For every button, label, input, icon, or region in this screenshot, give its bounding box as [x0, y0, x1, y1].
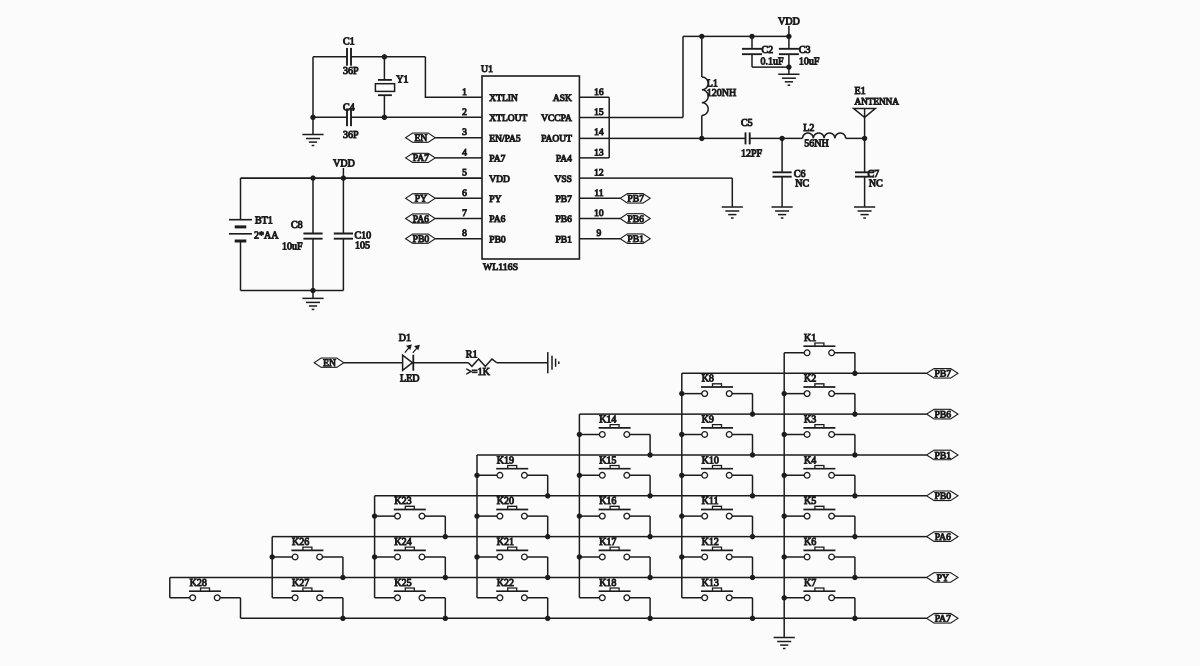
svg-text:R1: R1	[466, 349, 478, 360]
node K14 column junction	[577, 432, 582, 437]
svg-text:PA4: PA4	[556, 155, 572, 165]
wire K19 drop	[547, 475, 549, 496]
switch K11	[682, 496, 753, 519]
svg-text:C4: C4	[343, 102, 355, 113]
switch K21	[477, 537, 548, 560]
wire K11 drop	[752, 516, 754, 537]
power VDD symbol (top)	[778, 16, 800, 36]
node K1 row junction	[852, 371, 857, 376]
node K25 row junction	[443, 616, 448, 621]
svg-text:PAOUT: PAOUT	[541, 134, 572, 144]
ground crystal	[302, 135, 323, 146]
wire K9 drop	[752, 434, 754, 455]
wire K18 drop	[649, 598, 651, 619]
wire K7 drop	[854, 598, 856, 619]
node K5 row junction	[852, 534, 857, 539]
svg-text:15: 15	[594, 108, 604, 118]
wire K25 drop	[444, 598, 446, 619]
switch K3	[784, 414, 855, 437]
wire K17 drop	[649, 557, 651, 578]
wire K21 drop	[547, 557, 549, 578]
power VDD symbol (battery section)	[333, 159, 355, 179]
wire PAOUT pin14	[579, 137, 745, 139]
wire C5 to C6 node	[750, 137, 803, 139]
switch K28	[170, 578, 241, 601]
svg-text:K12: K12	[702, 537, 719, 548]
node crystal-bottom junction	[382, 115, 387, 120]
svg-text:K26: K26	[292, 537, 309, 548]
svg-text:2*AA: 2*AA	[254, 231, 279, 242]
switch K10	[682, 455, 753, 478]
svg-text:K10: K10	[702, 455, 719, 466]
svg-text:E1: E1	[855, 86, 866, 97]
node PB7 flag (IC side)	[620, 194, 650, 205]
svg-text:VCCPA: VCCPA	[541, 114, 572, 124]
svg-text:K4: K4	[804, 455, 816, 466]
node K27 row junction	[340, 616, 345, 621]
svg-text:U1: U1	[481, 64, 493, 75]
svg-text:NC: NC	[795, 178, 809, 189]
switch K17	[579, 537, 650, 560]
node PB0 flag	[406, 234, 436, 245]
svg-text:K3: K3	[804, 414, 816, 425]
node K12 row junction	[750, 575, 755, 580]
svg-text:BT1: BT1	[255, 216, 273, 227]
node PA6 flag (matrix)	[927, 532, 958, 543]
node K23 row junction	[443, 534, 448, 539]
node K6 column junction	[782, 554, 787, 559]
capacitor C7	[855, 138, 883, 207]
svg-text:3: 3	[462, 128, 467, 138]
node K19 column junction	[474, 473, 479, 478]
node antenna junction	[862, 136, 867, 141]
svg-text:K2: K2	[804, 374, 816, 385]
switch K24	[375, 537, 446, 560]
node C2 top junction	[749, 34, 754, 39]
svg-text:36P: 36P	[343, 130, 359, 141]
wire K27 drop	[342, 598, 344, 619]
wire matrix column 3	[578, 414, 580, 598]
node K21 row junction	[545, 575, 550, 580]
switch K19	[477, 455, 548, 478]
svg-text:C5: C5	[741, 118, 753, 129]
node K20 row junction	[545, 534, 550, 539]
wire matrix row PA6	[272, 536, 926, 538]
svg-text:>=1K: >=1K	[466, 367, 490, 378]
node K17 column junction	[577, 554, 582, 559]
crystal Y1	[375, 57, 408, 118]
svg-text:K5: K5	[804, 496, 816, 507]
wire K22 drop	[547, 598, 549, 619]
svg-text:ASK: ASK	[553, 94, 572, 104]
node PB7 flag (matrix)	[927, 369, 958, 380]
svg-text:K19: K19	[497, 455, 514, 466]
wire matrix row PB1	[477, 454, 927, 456]
wire K26 drop	[342, 557, 344, 578]
wire K16 drop	[649, 516, 651, 537]
svg-text:K16: K16	[599, 496, 616, 507]
node PA7 flag (matrix)	[927, 613, 958, 624]
node C4 left junction	[310, 115, 315, 120]
svg-text:PB0: PB0	[489, 235, 506, 245]
node PB6 flag (matrix)	[927, 409, 958, 420]
svg-text:14: 14	[594, 128, 604, 138]
wire pin9 PB1	[579, 238, 620, 240]
wire battery bottom rail	[241, 290, 344, 292]
svg-text:4: 4	[462, 148, 467, 158]
svg-text:VSS: VSS	[554, 175, 571, 185]
svg-text:PB1: PB1	[556, 235, 573, 245]
svg-text:K7: K7	[804, 578, 816, 589]
wire top (C1 net, pin 1 XTLIN)	[313, 56, 425, 58]
svg-text:K9: K9	[702, 414, 714, 425]
ground LED (rotated)	[548, 352, 559, 373]
wire matrix row PY	[170, 576, 927, 578]
node K24 column junction	[372, 554, 377, 559]
svg-text:PA6: PA6	[489, 215, 505, 225]
svg-text:9: 9	[597, 229, 602, 239]
node K16 row junction	[647, 534, 652, 539]
node PY flag (matrix)	[927, 573, 958, 584]
wire matrix row PB7	[682, 372, 927, 374]
wire ASK pin16 to PA4 pin13 tie	[579, 97, 609, 158]
svg-text:56NH: 56NH	[804, 138, 828, 149]
svg-text:120NH: 120NH	[707, 88, 736, 99]
svg-text:C3: C3	[799, 45, 811, 56]
wire crystal left vertical	[312, 57, 314, 135]
svg-text:K23: K23	[394, 496, 411, 507]
node PB6 flag (IC side)	[620, 214, 650, 225]
inductor L2	[803, 123, 846, 150]
wire matrix column 4	[476, 455, 478, 598]
svg-text:K27: K27	[292, 578, 309, 589]
resistor R1	[466, 349, 497, 378]
svg-text:K28: K28	[190, 578, 207, 589]
capacitor C10	[334, 178, 371, 290]
node K18 row junction	[647, 616, 652, 621]
svg-text:PB1: PB1	[627, 234, 644, 245]
switch K5	[784, 496, 855, 519]
svg-text:7: 7	[462, 209, 467, 219]
svg-text:VDD: VDD	[489, 175, 510, 185]
node K4 row junction	[852, 493, 857, 498]
wire top VDD rail	[683, 35, 789, 37]
svg-text:10uF: 10uF	[799, 56, 820, 67]
node PB0 flag (matrix)	[927, 491, 958, 502]
svg-text:WL116S: WL116S	[483, 262, 518, 273]
node PB1 flag (matrix)	[927, 450, 958, 461]
switch K25	[375, 578, 446, 601]
wire pin10 PB6	[579, 218, 620, 220]
node K2 column junction	[782, 391, 787, 396]
svg-text:PB6: PB6	[627, 214, 644, 225]
switch K27	[272, 578, 343, 601]
node K9 row junction	[750, 452, 755, 457]
node PY flag	[406, 194, 436, 205]
node C8 top junction	[310, 175, 315, 180]
wire K23 drop	[444, 516, 446, 537]
svg-text:10uF: 10uF	[282, 241, 303, 252]
node K8 row junction	[750, 411, 755, 416]
wire matrix row PB0	[375, 495, 927, 497]
node K15 column junction	[577, 473, 582, 478]
antenna E1	[854, 86, 900, 138]
svg-text:D1: D1	[399, 333, 411, 344]
node PB1 flag (IC side)	[620, 234, 650, 245]
wire K3 drop	[854, 434, 856, 455]
svg-text:PB1: PB1	[935, 450, 952, 461]
wire K14 drop	[649, 434, 651, 455]
svg-text:EN: EN	[415, 133, 428, 144]
node K17 row junction	[647, 575, 652, 580]
svg-text:K21: K21	[497, 537, 514, 548]
switch K14	[579, 414, 650, 437]
capacitor C8	[282, 178, 323, 290]
svg-text:16: 16	[594, 88, 604, 98]
wire R1 to ground	[497, 362, 548, 364]
svg-text:K22: K22	[497, 578, 514, 589]
node K11 row junction	[750, 534, 755, 539]
svg-text:PA7: PA7	[413, 153, 429, 164]
ground battery	[302, 291, 323, 310]
switch K18	[579, 578, 650, 601]
switch K20	[477, 496, 548, 519]
switch K16	[579, 496, 650, 519]
svg-text:PB6: PB6	[556, 215, 573, 225]
capacitor C1	[343, 37, 359, 78]
wire K5 drop	[854, 516, 856, 537]
node K22 row junction	[545, 616, 550, 621]
switch K23	[375, 496, 446, 519]
node C2C3 ground junction	[786, 64, 791, 69]
node K7 row junction	[852, 616, 857, 621]
wire matrix column 2	[681, 373, 683, 597]
svg-text:K17: K17	[599, 537, 616, 548]
node EN flag	[406, 133, 436, 144]
wire K10 drop	[752, 475, 754, 496]
svg-text:EN/PA5: EN/PA5	[489, 134, 521, 144]
switch K6	[784, 537, 855, 560]
wire LED to R1	[413, 362, 468, 364]
svg-text:K15: K15	[599, 455, 616, 466]
svg-text:PB0: PB0	[935, 491, 952, 502]
switch K12	[682, 537, 753, 560]
wire matrix column 6	[271, 537, 273, 598]
svg-text:PB0: PB0	[413, 234, 430, 245]
capacitor C3	[779, 36, 820, 67]
svg-text:PB7: PB7	[935, 369, 952, 380]
svg-text:PY: PY	[415, 194, 427, 205]
wire pin6 PY	[435, 197, 482, 199]
node K10 row junction	[750, 493, 755, 498]
node K16 column junction	[577, 513, 582, 518]
node K8 column junction	[679, 391, 684, 396]
node K10 column junction	[679, 473, 684, 478]
node K13 row junction	[750, 616, 755, 621]
svg-text:105: 105	[355, 241, 370, 252]
node K12 column junction	[679, 554, 684, 559]
node K5 column junction	[782, 513, 787, 518]
wire K15 drop	[649, 475, 651, 496]
svg-text:K18: K18	[599, 578, 616, 589]
svg-text:10: 10	[594, 209, 604, 219]
LED D1	[399, 333, 420, 384]
svg-text:0.1uF: 0.1uF	[761, 56, 785, 67]
wire K20 drop	[547, 516, 549, 537]
wire matrix row PA7	[241, 617, 927, 619]
svg-text:12PF: 12PF	[741, 149, 763, 160]
node K3 column junction	[782, 432, 787, 437]
node L1 top junction	[699, 34, 704, 39]
node C3 top junction	[786, 34, 791, 39]
op-amp U1 (IC WL116S body and pin labels)	[462, 64, 604, 273]
switch K2	[784, 374, 855, 397]
svg-text:11: 11	[594, 189, 603, 199]
svg-text:13: 13	[594, 148, 604, 158]
switch K8	[682, 374, 753, 397]
node K26 column junction	[270, 554, 275, 559]
svg-text:K8: K8	[702, 374, 714, 385]
switch K26	[272, 537, 343, 560]
svg-text:EN: EN	[323, 358, 336, 369]
capacitor C6	[773, 138, 810, 207]
switch K1	[784, 333, 855, 356]
node K15 row junction	[647, 493, 652, 498]
node C6 top junction	[779, 136, 784, 141]
capacitor C2	[742, 36, 784, 67]
svg-text:K6: K6	[804, 537, 816, 548]
svg-text:Y1: Y1	[396, 75, 408, 86]
wire K8 drop	[752, 394, 754, 415]
svg-text:ANTENNA: ANTENNA	[855, 97, 900, 107]
svg-text:C8: C8	[291, 220, 303, 231]
switch K22	[477, 578, 548, 601]
svg-text:PA6: PA6	[413, 214, 429, 225]
ground C6	[772, 207, 793, 218]
svg-text:XTLIN: XTLIN	[489, 94, 518, 104]
svg-text:5: 5	[462, 169, 467, 179]
wire pin2 XTLOUT	[313, 116, 482, 118]
node EN flag (LED section)	[314, 358, 344, 369]
node K7 column junction	[782, 595, 787, 600]
capacitor C5	[741, 118, 763, 159]
svg-text:1: 1	[462, 88, 467, 98]
node K21 column junction	[474, 554, 479, 559]
wire K2 drop	[854, 394, 856, 415]
svg-text:NC: NC	[869, 178, 883, 189]
svg-text:K25: K25	[394, 578, 411, 589]
capacitor C4	[343, 102, 359, 141]
battery BT1	[229, 178, 279, 290]
ground matrix column 1	[774, 638, 795, 649]
svg-text:PY: PY	[937, 573, 949, 584]
node K19 row junction	[545, 493, 550, 498]
svg-text:K11: K11	[702, 496, 719, 507]
wire matrix row PB6	[579, 413, 926, 415]
node K23 column junction	[372, 513, 377, 518]
wire K24 drop	[444, 557, 446, 578]
node K14 row junction	[647, 452, 652, 457]
wire VDD rail to pin 5	[241, 177, 483, 179]
svg-text:LED: LED	[400, 374, 419, 385]
svg-text:8: 8	[462, 229, 467, 239]
wire K12 drop	[752, 557, 754, 578]
wire matrix column 1 (to ground)	[783, 353, 785, 638]
ground VSS	[722, 207, 743, 218]
node K24 row junction	[443, 575, 448, 580]
node VDD tick junction	[341, 175, 346, 180]
wire pin3 EN	[435, 137, 482, 139]
wire pin4 PA7	[435, 157, 482, 159]
wire K4 drop	[854, 475, 856, 496]
wire EN to LED	[344, 362, 403, 364]
svg-text:PB6: PB6	[935, 409, 952, 420]
wire K6 drop	[854, 557, 856, 578]
wire L2 to antenna node	[846, 137, 865, 139]
svg-text:PB7: PB7	[556, 195, 573, 205]
node K6 row junction	[852, 575, 857, 580]
switch K4	[784, 455, 855, 478]
svg-text:K13: K13	[702, 578, 719, 589]
wire K13 drop	[752, 598, 754, 619]
node K26 row junction	[340, 575, 345, 580]
switch K9	[682, 414, 753, 437]
wire pin7 PA6	[435, 218, 482, 220]
wire matrix column 5	[374, 496, 376, 598]
node K20 column junction	[474, 513, 479, 518]
wire pin11 PB7	[579, 197, 620, 199]
svg-text:2: 2	[462, 108, 467, 118]
svg-text:PA7: PA7	[489, 155, 505, 165]
svg-text:12: 12	[594, 169, 604, 179]
svg-text:C2: C2	[762, 45, 774, 56]
wire VSS pin12	[579, 178, 732, 207]
svg-text:PY: PY	[489, 195, 501, 205]
node K3 row junction	[852, 452, 857, 457]
node L1 bottom junction	[699, 136, 704, 141]
svg-text:VDD: VDD	[778, 16, 800, 27]
node K4 column junction	[782, 473, 787, 478]
svg-text:C1: C1	[343, 37, 355, 48]
svg-text:K24: K24	[394, 537, 411, 548]
node crystal-top junction	[382, 54, 387, 59]
svg-text:36P: 36P	[343, 66, 359, 77]
wire C2-C3 bottom	[752, 66, 789, 68]
ground C2C3	[778, 67, 799, 85]
node K9 column junction	[679, 432, 684, 437]
wire pin1 corner	[425, 57, 482, 98]
switch K7	[784, 578, 855, 601]
svg-text:K14: K14	[599, 414, 616, 425]
svg-text:PA6: PA6	[935, 532, 951, 543]
svg-text:K20: K20	[497, 496, 514, 507]
svg-text:PA7: PA7	[935, 614, 951, 625]
ground C7	[854, 207, 875, 218]
svg-text:6: 6	[462, 189, 467, 199]
wire matrix column 7	[169, 577, 171, 597]
node PA6 flag	[406, 214, 436, 225]
node bottom-rail ground junction	[310, 288, 315, 293]
svg-text:XTLOUT: XTLOUT	[489, 114, 527, 124]
wire K1 drop	[854, 353, 856, 374]
wire VCCPA pin15 up	[579, 36, 683, 117]
wire K28 drop	[240, 598, 242, 619]
svg-text:L2: L2	[803, 123, 814, 134]
svg-text:PB7: PB7	[627, 194, 644, 205]
svg-text:K1: K1	[804, 333, 816, 344]
svg-text:VDD: VDD	[333, 159, 355, 170]
wire pin8 PB0	[435, 238, 482, 240]
